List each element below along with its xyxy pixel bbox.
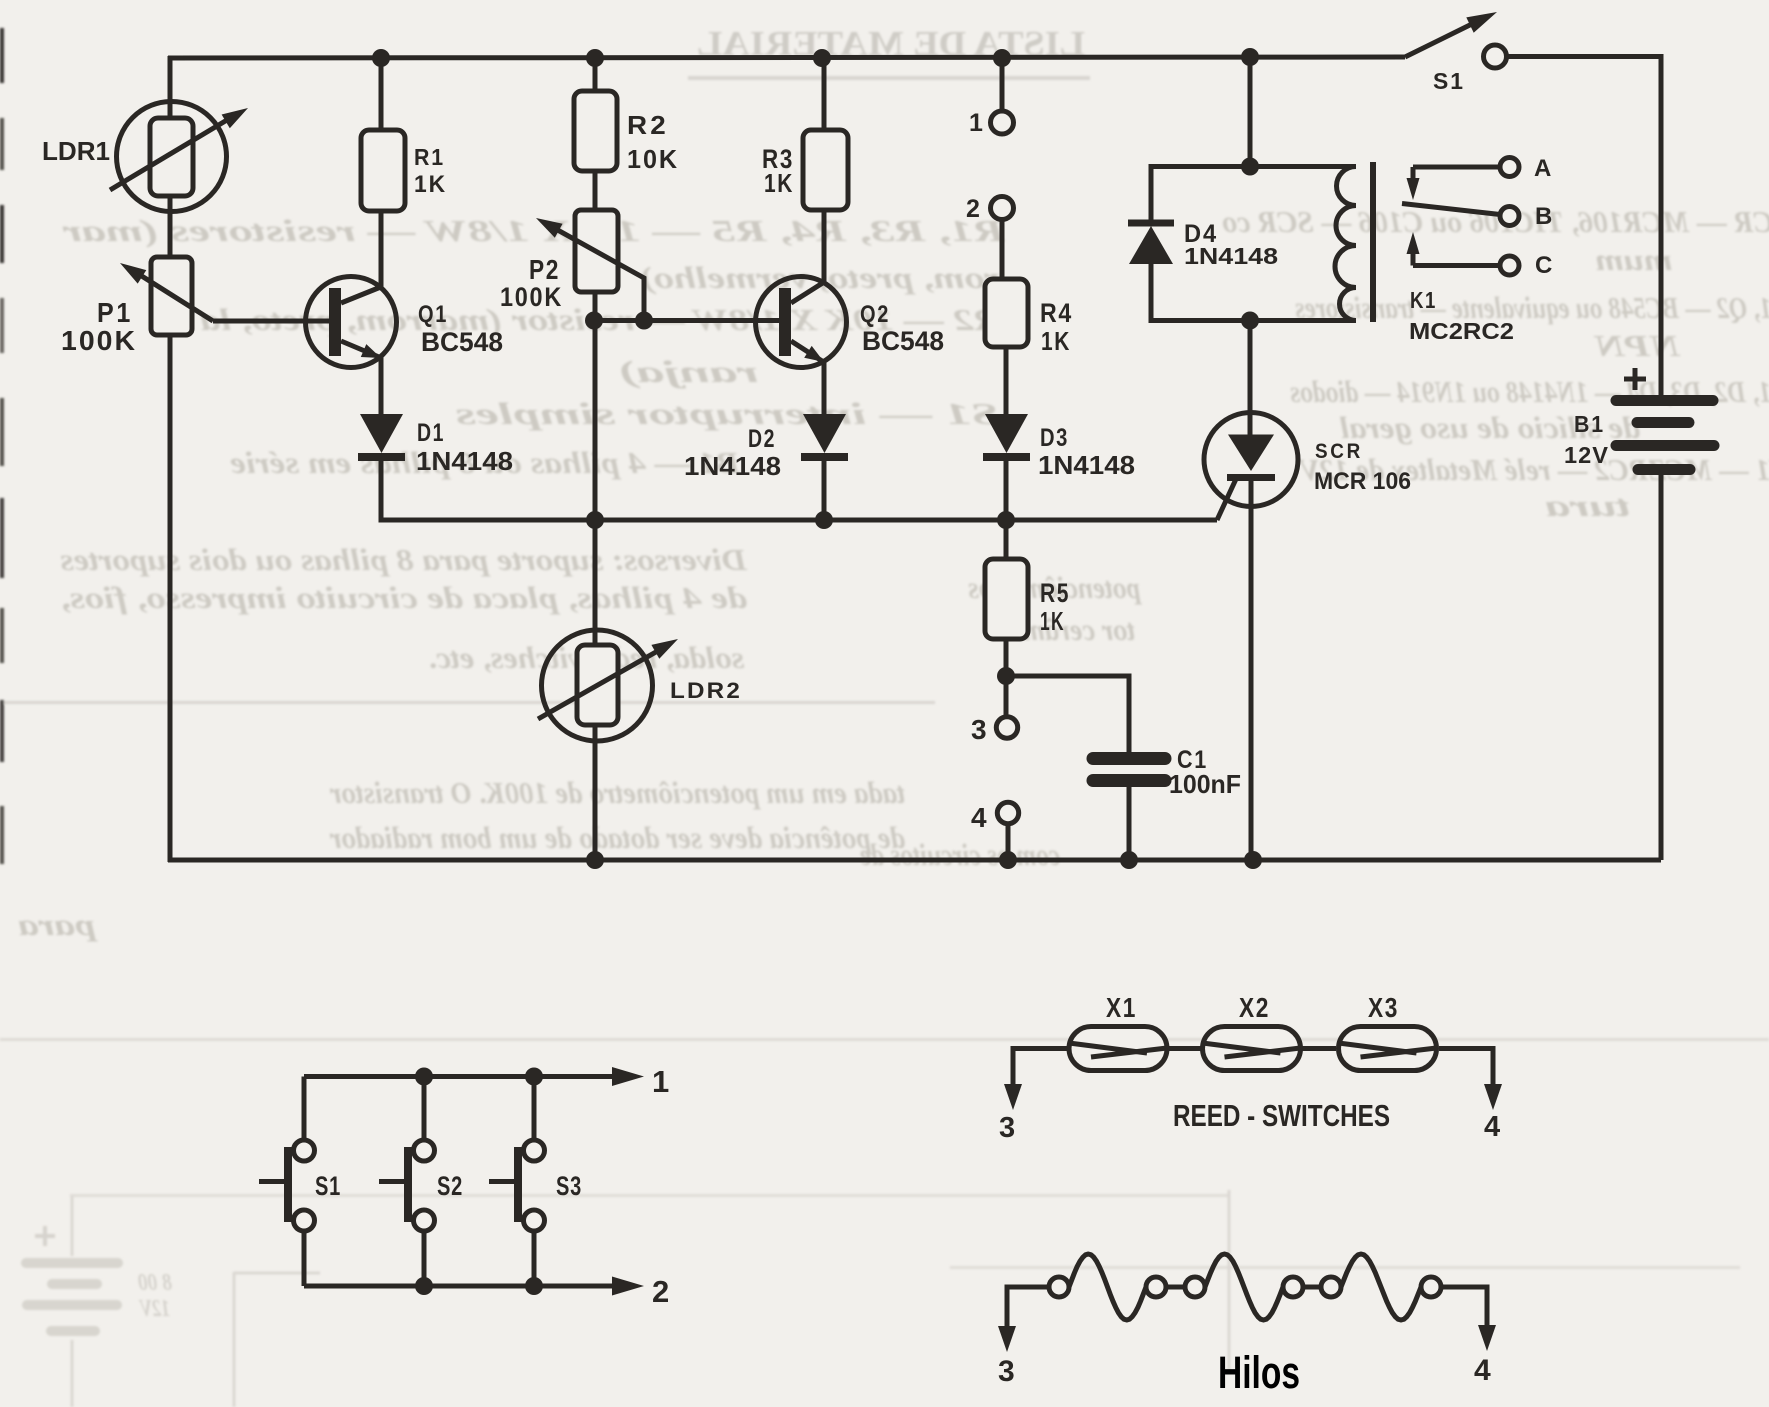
diode D1 1N4148 — [358, 414, 513, 476]
svg-text:Diversos: suporte para 8 pilha: Diversos: suporte para 8 pilhas ou dois … — [60, 542, 748, 577]
svg-text:3: 3 — [998, 1355, 1015, 1388]
wire pushbutton rail 2 — [304, 1284, 614, 1289]
svg-text:de 4 pilhas, placa de circuito: de 4 pilhas, placa de circuito impresso,… — [60, 580, 747, 615]
svg-text:S1: S1 — [1433, 68, 1465, 94]
svg-text:4: 4 — [971, 802, 987, 833]
svg-text:1N4148: 1N4148 — [416, 446, 513, 476]
svg-text:R2: R2 — [627, 110, 669, 140]
pushbutton S2 — [379, 1077, 463, 1287]
svg-text:4: 4 — [1474, 1354, 1491, 1387]
junction dot SCR cathode bottom rail — [1244, 851, 1262, 869]
pushbutton S3 — [489, 1077, 582, 1287]
junction dot C1 bottom rail — [1120, 851, 1138, 869]
svg-text:X2: X2 — [1239, 992, 1270, 1023]
wire reed chain left lead to node 3 — [999, 1049, 1069, 1145]
junction dot relay bottom rail — [1241, 312, 1259, 330]
svg-text:P1: P1 — [97, 297, 133, 328]
wire between X1 and X2 — [1167, 1046, 1202, 1051]
transistor Q1 BC548 — [306, 211, 397, 368]
junction dot relay top rail — [1241, 158, 1259, 176]
terminal node 3 — [971, 676, 1018, 745]
svg-text:Q1: Q1 — [418, 301, 448, 328]
svg-text:SCR — MCR106, TIC106 ou C106 —: SCR — MCR106, TIC106 ou C106 — SCR co — [1222, 204, 1769, 239]
hilos wavy wire 2 — [1205, 1254, 1283, 1320]
wire relay feed — [1248, 57, 1253, 168]
wire reed chain right lead to node 4 — [1439, 1049, 1502, 1144]
svg-text:Hilos: Hilos — [1218, 1347, 1300, 1398]
svg-text:X1: X1 — [1106, 992, 1137, 1023]
svg-text:de potência deve ser dotado de: de potência deve ser dotado de um bom ra… — [329, 820, 905, 855]
reed switch X2 — [1203, 992, 1301, 1071]
capacitor C1 100nF — [1093, 746, 1241, 799]
resistor R5 1K — [985, 520, 1070, 639]
switch S1 — [1405, 12, 1507, 94]
terminal node 1 — [969, 58, 1014, 137]
relay contact A — [1407, 155, 1552, 200]
svg-text:12V: 12V — [139, 1296, 170, 1322]
svg-text:BC548: BC548 — [421, 327, 503, 357]
junction dot relay feed top — [1241, 48, 1259, 66]
svg-text:com os circuitos de: com os circuitos de — [860, 837, 1060, 872]
transistor Q2 BC548 — [756, 210, 847, 368]
svg-text:8 00: 8 00 — [138, 1270, 172, 1296]
svg-text:B: B — [1535, 203, 1552, 230]
diode D4 1N4148 — [1128, 164, 1278, 323]
resistor R4 1K — [985, 279, 1073, 356]
svg-text:100K: 100K — [500, 282, 563, 312]
svg-text:B1: B1 — [1574, 411, 1605, 437]
pushbutton S1 — [259, 1077, 341, 1287]
svg-text:D2: D2 — [748, 425, 776, 453]
svg-text:1N4148: 1N4148 — [1184, 243, 1278, 269]
hilos bead at x=1331 — [1321, 1277, 1341, 1297]
svg-text:D3: D3 — [1040, 424, 1069, 452]
hilos bead at x=1156 — [1146, 1277, 1166, 1297]
svg-text:MC2RC2: MC2RC2 — [1409, 318, 1514, 344]
wire P1 bottom to bottom rail — [168, 335, 173, 862]
junction dot P2 wiper / base — [635, 312, 653, 330]
junction dots rails — [415, 1068, 433, 1086]
diode D3 1N4148 — [983, 414, 1135, 480]
svg-text:C: C — [1535, 252, 1552, 279]
svg-text:1K: 1K — [1041, 326, 1071, 356]
svg-text:BC548: BC548 — [862, 326, 944, 356]
wire relay bottom rail — [1150, 318, 1356, 323]
relay K1 coil — [1335, 162, 1373, 322]
svg-text:R4: R4 — [1040, 298, 1073, 328]
wire Q2 emitter to D2 — [822, 361, 827, 416]
svg-text:100K: 100K — [61, 325, 137, 356]
wire R4 to D3 — [1004, 347, 1009, 416]
svg-text:LDR1: LDR1 — [42, 136, 110, 166]
svg-text:para: para — [18, 907, 99, 942]
svg-text:K1: K1 — [1410, 287, 1437, 313]
svg-text:1: 1 — [652, 1064, 669, 1099]
hilos wavy wire 1 — [1069, 1254, 1146, 1320]
svg-text:1: 1 — [969, 109, 983, 137]
svg-text:S3: S3 — [556, 1171, 582, 1201]
svg-text:2: 2 — [652, 1274, 669, 1309]
svg-text:100nF: 100nF — [1169, 769, 1241, 799]
wire R2 to P2 — [593, 171, 598, 210]
terminal node 4 — [971, 802, 1019, 860]
resistor R1 — [361, 58, 447, 211]
wire relay top rail — [1150, 164, 1356, 169]
svg-text:rom, preto, vermelho): rom, preto, vermelho) — [640, 260, 1000, 295]
svg-text:NPN: NPN — [1593, 328, 1681, 363]
junction dot R2 top — [586, 49, 604, 67]
svg-text:1N4148: 1N4148 — [1038, 450, 1135, 480]
svg-text:P2: P2 — [529, 254, 560, 285]
svg-text:S2: S2 — [437, 1171, 463, 1201]
wire SCR cathode to bottom rail — [1249, 480, 1254, 860]
wire battery negative to bottom rail — [1659, 475, 1664, 860]
diode D2 1N4148 — [684, 414, 848, 481]
svg-text:LDR2: LDR2 — [670, 678, 742, 703]
junction dot R1 top — [372, 49, 390, 67]
svg-text:1K: 1K — [764, 168, 794, 198]
resistor R3 1K — [762, 58, 848, 210]
svg-text:12V: 12V — [1564, 442, 1609, 468]
wire Q1 base — [213, 319, 330, 324]
svg-text:S1 — interruptor simples: S1 — interruptor simples — [455, 396, 1000, 431]
wire P2 bottom to gate rail — [593, 292, 598, 522]
svg-text:X3: X3 — [1368, 992, 1399, 1023]
reed switch X1 — [1069, 992, 1167, 1071]
wire left edge LDR1/P1 branch — [168, 56, 173, 120]
junction dot D1 rail / P2 column — [586, 511, 604, 529]
relay armature B — [1402, 203, 1552, 230]
svg-text:1N4148: 1N4148 — [684, 451, 781, 481]
svg-text:1K: 1K — [414, 171, 447, 198]
wire D2 to gate rail — [822, 457, 827, 520]
svg-text:ranja): ranja) — [618, 354, 758, 389]
svg-text:1K: 1K — [1040, 606, 1065, 636]
LDR1 — [110, 102, 248, 260]
wire hilos left lead node 3 — [998, 1287, 1049, 1388]
reed switch X3 — [1339, 992, 1437, 1071]
svg-text:3: 3 — [999, 1112, 1015, 1144]
wire top supply rail — [168, 57, 1405, 58]
hilos bead at x=1293 — [1283, 1277, 1303, 1297]
wire gate diagonal to SCR — [1217, 479, 1236, 520]
terminal node 2 — [966, 195, 1014, 280]
wire junction to C1 — [1006, 676, 1129, 753]
svg-text:2: 2 — [966, 195, 980, 223]
svg-text:Q1, Q2 — BC548 ou equivalente: Q1, Q2 — BC548 ou equivalente — transist… — [1295, 290, 1769, 325]
hilos bead at x=1195 — [1185, 1277, 1205, 1297]
junction dot node4 bottom rail — [999, 851, 1017, 869]
potentiometer P2 100K — [536, 210, 644, 320]
wire D3 to gate rail — [1004, 457, 1009, 520]
svg-text:S1: S1 — [315, 1171, 341, 1201]
svg-text:Q2: Q2 — [860, 301, 890, 328]
svg-text:REED - SWITCHES: REED - SWITCHES — [1173, 1098, 1390, 1133]
svg-text:4: 4 — [1484, 1111, 1500, 1143]
junction dot node1 top — [993, 49, 1011, 67]
svg-text:SCR: SCR — [1315, 440, 1363, 463]
junction dot P2 bottom / base — [585, 312, 603, 330]
wire pushbutton rail 1 — [304, 1074, 614, 1079]
hilos bead at x=1431 — [1421, 1277, 1441, 1297]
svg-text:D1: D1 — [417, 419, 445, 447]
svg-text:3: 3 — [971, 714, 987, 745]
wire R5 to node3 junction — [1004, 639, 1009, 676]
junction dot R3 top — [813, 49, 831, 67]
wire C1 to bottom rail — [1127, 787, 1132, 860]
relay contact C — [1407, 232, 1553, 279]
LDR2 — [538, 520, 678, 862]
svg-text:10K: 10K — [627, 144, 679, 174]
junction dot R5/C1/node3 — [997, 667, 1015, 685]
wire between X2 and X3 — [1301, 1046, 1336, 1051]
svg-text:MCR 106: MCR 106 — [1314, 468, 1411, 495]
wire hilos right lead node 4 — [1441, 1287, 1496, 1387]
junction dot LDR2 bottom rail — [586, 851, 604, 869]
svg-text:tura: tura — [1545, 488, 1630, 523]
hilos bead at x=1059 — [1049, 1277, 1069, 1297]
wire relay to SCR anode — [1248, 321, 1253, 437]
resistor R2 10K — [574, 58, 679, 174]
svg-text:A: A — [1534, 155, 1551, 182]
junction dot D2 column — [815, 511, 833, 529]
wire bottom rail — [168, 858, 1661, 863]
potentiometer P1 — [120, 257, 213, 335]
hilos wavy wire 3 — [1341, 1254, 1421, 1320]
battery B1 12V — [1564, 368, 1714, 470]
svg-text:R1, R3, R4, R5 — 1K X 1/8W — r: R1, R3, R4, R5 — 1K X 1/8W — resistores … — [62, 213, 1007, 248]
svg-text:R5: R5 — [1040, 578, 1070, 608]
wire right edge from S1 to battery — [1507, 57, 1661, 396]
wire Q1 emitter to D1 — [379, 357, 384, 416]
SCR MCR106 — [1204, 413, 1411, 507]
wire Q2 base — [594, 318, 780, 323]
svg-text:R1: R1 — [414, 144, 445, 170]
wire D1 to gate rail — [381, 457, 1217, 520]
svg-text:tada em um potenciômetro de 10: tada em um potenciômetro de 100K. O tran… — [329, 775, 905, 810]
junction dot D3 column — [997, 511, 1015, 529]
hilos link wires — [1166, 1285, 1185, 1290]
